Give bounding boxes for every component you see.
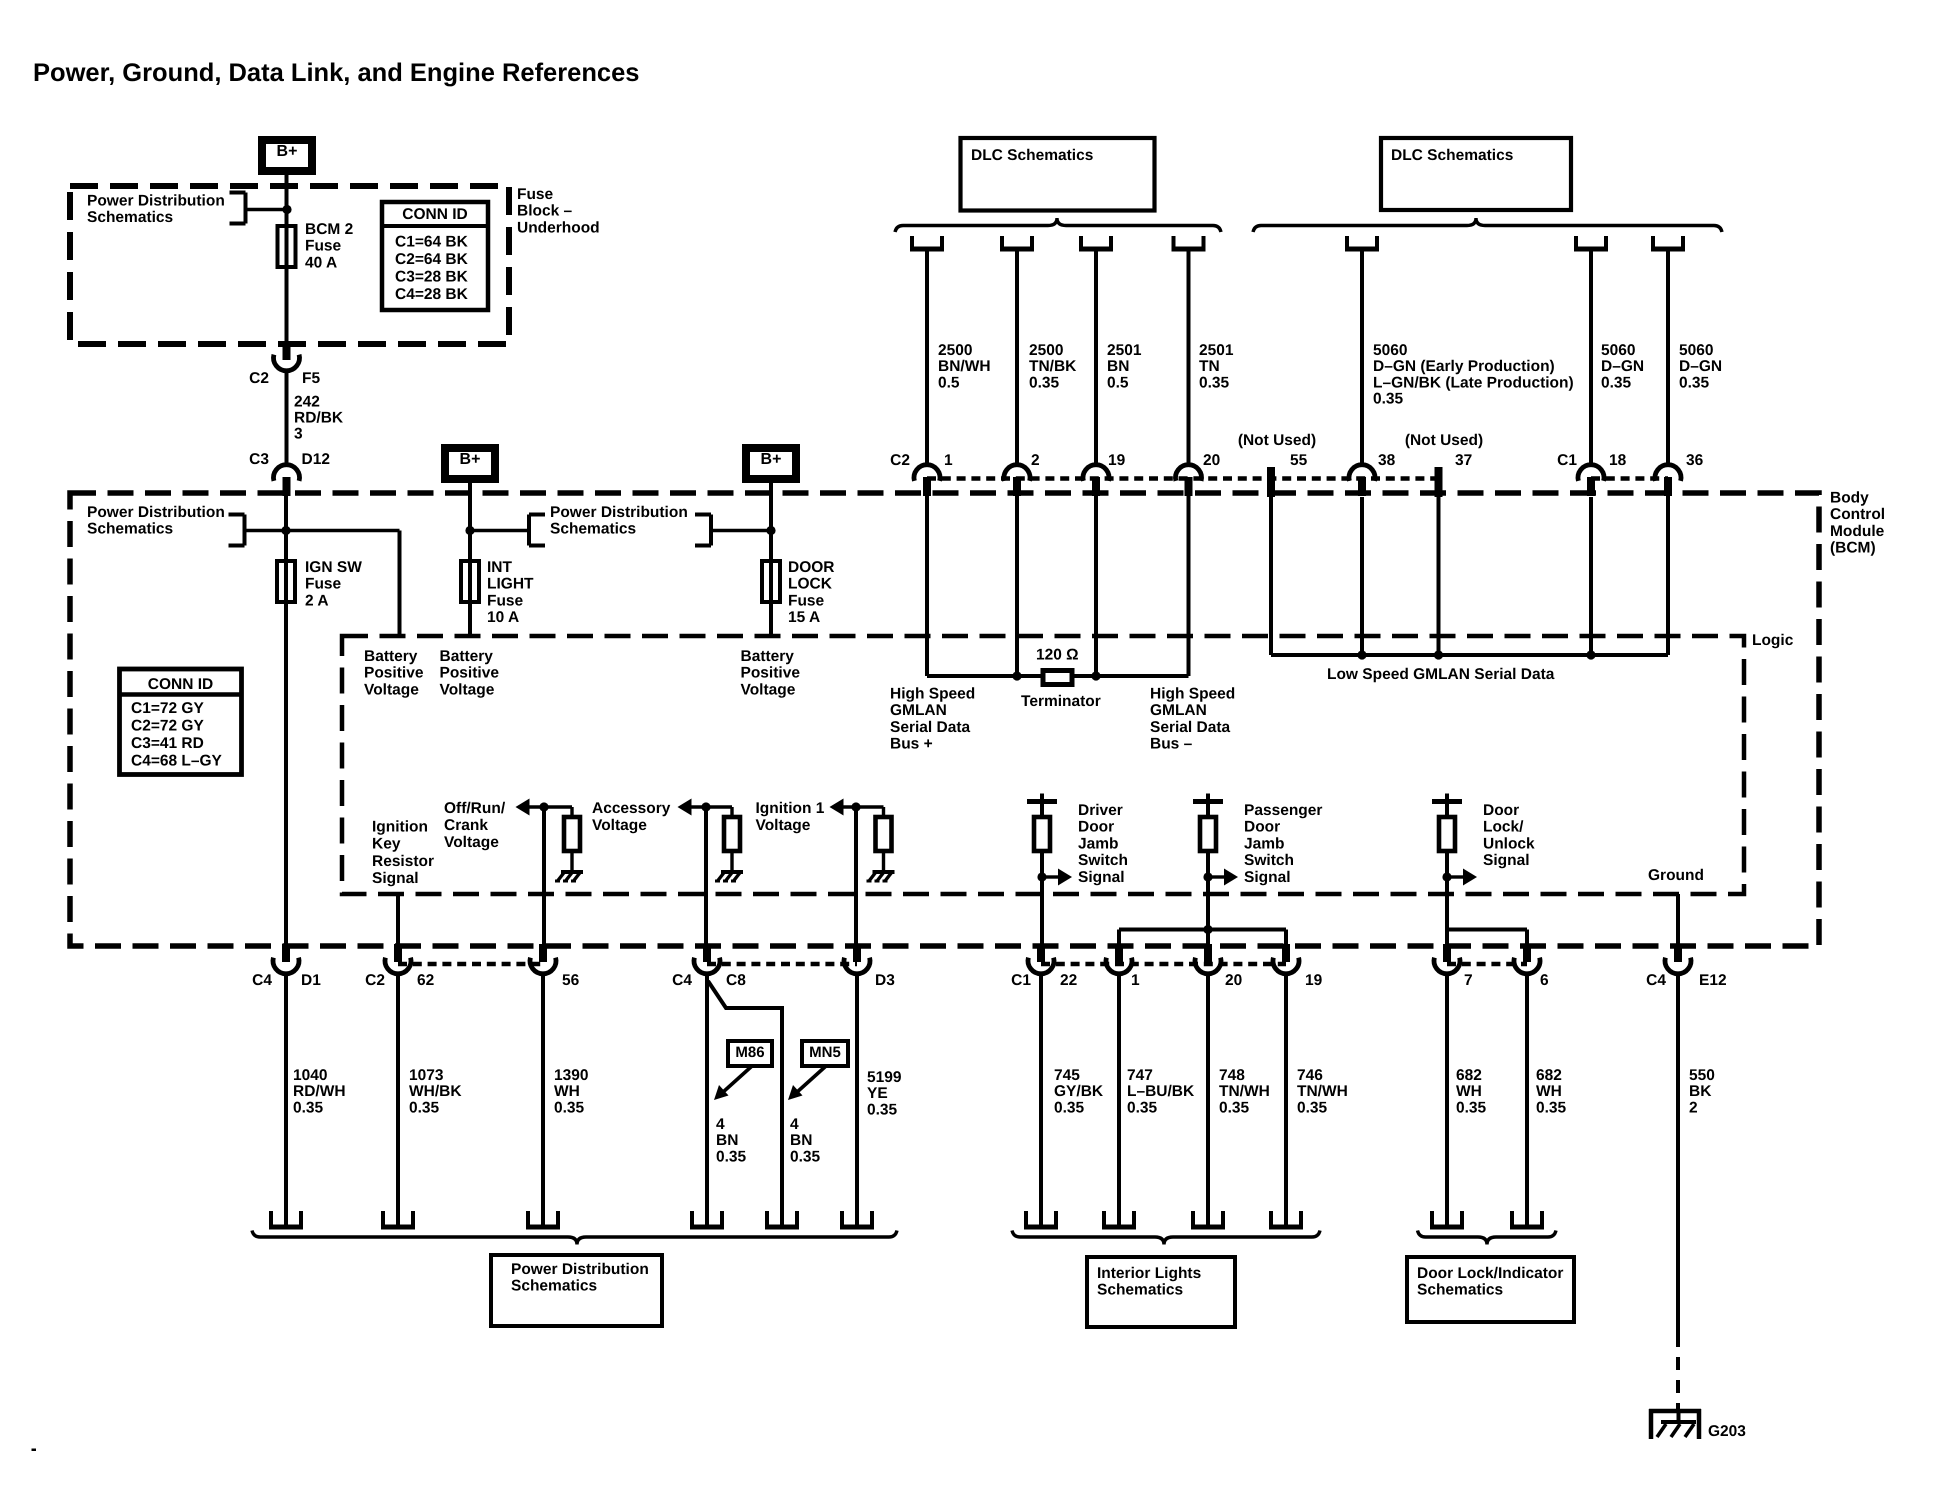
svg-text:Fuse: Fuse [788, 592, 825, 609]
svg-text:Battery: Battery [364, 648, 418, 665]
svg-text:0.5: 0.5 [1107, 374, 1129, 391]
svg-text:Voltage: Voltage [756, 817, 811, 834]
svg-text:Positive: Positive [364, 665, 424, 682]
svg-text:748: 748 [1219, 1067, 1245, 1084]
svg-text:C2=72 GY: C2=72 GY [131, 717, 204, 734]
svg-text:Block –: Block – [517, 203, 573, 220]
svg-text:C1: C1 [1011, 972, 1031, 989]
svg-text:Signal: Signal [1078, 869, 1125, 886]
svg-text:Ignition 1: Ignition 1 [756, 800, 825, 817]
svg-text:BN: BN [790, 1132, 812, 1149]
svg-text:C4: C4 [672, 972, 692, 989]
svg-text:Schematics: Schematics [1097, 1282, 1183, 1299]
svg-text:High Speed: High Speed [1150, 685, 1235, 702]
svg-text:0.35: 0.35 [1199, 374, 1230, 391]
svg-text:Control: Control [1830, 506, 1885, 523]
svg-text:WH: WH [1456, 1083, 1482, 1100]
svg-text:GMLAN: GMLAN [1150, 702, 1207, 719]
svg-text:C1: C1 [1557, 452, 1577, 469]
svg-text:36: 36 [1686, 452, 1704, 469]
svg-text:RD/BK: RD/BK [294, 410, 344, 427]
svg-text:C3: C3 [249, 451, 269, 468]
svg-text:Door: Door [1483, 802, 1519, 819]
svg-text:2501: 2501 [1199, 342, 1234, 359]
svg-text:6: 6 [1540, 972, 1549, 989]
svg-text:2500: 2500 [938, 342, 972, 359]
svg-text:Schematics: Schematics [87, 521, 173, 538]
svg-text:0.35: 0.35 [1373, 391, 1404, 408]
svg-text:DLC Schematics: DLC Schematics [1391, 147, 1513, 164]
svg-text:Jamb: Jamb [1244, 835, 1285, 852]
svg-text:1390: 1390 [554, 1067, 588, 1084]
svg-text:TN/WH: TN/WH [1219, 1083, 1270, 1100]
svg-text:0.35: 0.35 [1297, 1099, 1328, 1116]
svg-text:B+: B+ [761, 451, 782, 468]
svg-text:GY/BK: GY/BK [1054, 1083, 1104, 1100]
svg-text:746: 746 [1297, 1067, 1323, 1084]
svg-text:Door: Door [1078, 819, 1114, 836]
svg-text:C1=72 GY: C1=72 GY [131, 700, 204, 717]
svg-text:B+: B+ [460, 451, 481, 468]
svg-text:C4: C4 [1646, 972, 1666, 989]
svg-text:2500: 2500 [1029, 342, 1063, 359]
svg-text:WH: WH [554, 1083, 580, 1100]
svg-text:BK: BK [1689, 1083, 1712, 1100]
svg-text:BCM 2: BCM 2 [305, 221, 353, 238]
svg-text:10 A: 10 A [487, 609, 519, 626]
svg-text:Signal: Signal [372, 870, 419, 887]
svg-text:E12: E12 [1699, 972, 1727, 989]
svg-text:High Speed: High Speed [890, 685, 975, 702]
svg-text:Power Distribution: Power Distribution [550, 504, 688, 521]
svg-text:LIGHT: LIGHT [487, 576, 534, 593]
svg-text:18: 18 [1609, 452, 1627, 469]
svg-text:Module: Module [1830, 523, 1885, 540]
svg-text:C4=28 BK: C4=28 BK [395, 286, 469, 303]
svg-text:0.35: 0.35 [1219, 1099, 1250, 1116]
svg-text:56: 56 [562, 972, 580, 989]
svg-text:Fuse: Fuse [305, 238, 342, 255]
svg-text:C2=64 BK: C2=64 BK [395, 251, 469, 268]
svg-text:0.35: 0.35 [554, 1099, 585, 1116]
svg-text:RD/WH: RD/WH [293, 1083, 346, 1100]
svg-text:5060: 5060 [1373, 342, 1407, 359]
svg-text:B+: B+ [277, 143, 298, 160]
svg-text:Signal: Signal [1244, 869, 1291, 886]
svg-text:22: 22 [1060, 972, 1077, 989]
svg-text:Schematics: Schematics [87, 209, 173, 226]
svg-text:Off/Run/: Off/Run/ [444, 800, 506, 817]
svg-text:(BCM): (BCM) [1830, 540, 1876, 557]
svg-text:Passenger: Passenger [1244, 802, 1322, 819]
svg-text:Body: Body [1830, 489, 1869, 506]
svg-text:40 A: 40 A [305, 254, 337, 271]
svg-text:120 Ω: 120 Ω [1036, 646, 1079, 663]
svg-text:0.35: 0.35 [867, 1101, 898, 1118]
svg-text:20: 20 [1203, 452, 1220, 469]
svg-text:F5: F5 [302, 370, 320, 387]
svg-text:Battery: Battery [741, 648, 795, 665]
svg-text:4: 4 [716, 1116, 725, 1133]
svg-text:0.5: 0.5 [938, 374, 960, 391]
svg-text:D–GN (Early Production): D–GN (Early Production) [1373, 358, 1555, 375]
svg-text:20: 20 [1225, 972, 1242, 989]
svg-text:Positive: Positive [741, 665, 801, 682]
svg-text:Driver: Driver [1078, 802, 1123, 819]
svg-text:Power Distribution: Power Distribution [87, 192, 225, 209]
svg-text:7: 7 [1464, 972, 1473, 989]
svg-text:TN/WH: TN/WH [1297, 1083, 1348, 1100]
svg-text:5060: 5060 [1601, 342, 1635, 359]
svg-text:M86: M86 [735, 1044, 764, 1061]
svg-text:C8: C8 [726, 972, 746, 989]
svg-text:Voltage: Voltage [364, 681, 419, 698]
svg-text:D1: D1 [301, 972, 321, 989]
svg-text:C2: C2 [890, 452, 910, 469]
svg-text:Schematics: Schematics [511, 1278, 597, 1295]
svg-text:L–BU/BK: L–BU/BK [1127, 1083, 1195, 1100]
svg-text:Lock/: Lock/ [1483, 819, 1524, 836]
svg-text:242: 242 [294, 393, 320, 410]
svg-text:GMLAN: GMLAN [890, 702, 947, 719]
svg-text:2501: 2501 [1107, 342, 1142, 359]
svg-text:1: 1 [1131, 972, 1140, 989]
svg-text:Accessory: Accessory [592, 800, 671, 817]
svg-text:15 A: 15 A [788, 609, 820, 626]
svg-text:682: 682 [1456, 1067, 1482, 1084]
svg-text:YE: YE [867, 1085, 888, 1102]
svg-text:Terminator: Terminator [1021, 693, 1101, 710]
svg-text:0.35: 0.35 [1054, 1099, 1085, 1116]
svg-text:Fuse: Fuse [517, 186, 554, 203]
svg-text:Voltage: Voltage [444, 834, 499, 851]
svg-text:G203: G203 [1708, 1423, 1746, 1440]
svg-text:Door: Door [1244, 819, 1280, 836]
svg-text:Voltage: Voltage [741, 681, 796, 698]
svg-text:550: 550 [1689, 1067, 1715, 1084]
svg-text:1040: 1040 [293, 1067, 327, 1084]
svg-text:19: 19 [1108, 452, 1126, 469]
svg-text:Bus +: Bus + [890, 736, 933, 753]
svg-text:5060: 5060 [1679, 342, 1713, 359]
svg-text:0.35: 0.35 [293, 1099, 324, 1116]
svg-text:D12: D12 [302, 451, 330, 468]
svg-text:Fuse: Fuse [305, 576, 342, 593]
svg-text:CONN ID: CONN ID [148, 676, 213, 693]
svg-text:Schematics: Schematics [550, 521, 636, 538]
svg-text:Voltage: Voltage [592, 817, 647, 834]
svg-text:Door Lock/Indicator: Door Lock/Indicator [1417, 1265, 1563, 1282]
svg-text:C2: C2 [249, 370, 269, 387]
svg-text:C3=28 BK: C3=28 BK [395, 268, 469, 285]
svg-text:Switch: Switch [1078, 852, 1128, 869]
svg-text:CONN ID: CONN ID [402, 206, 467, 223]
svg-text:BN: BN [1107, 358, 1129, 375]
svg-text:L–GN/BK (Late Production): L–GN/BK (Late Production) [1373, 374, 1574, 391]
svg-text:0.35: 0.35 [1127, 1099, 1158, 1116]
svg-text:Power, Ground, Data Link, and: Power, Ground, Data Link, and Engine Ref… [33, 59, 639, 87]
svg-text:38: 38 [1378, 452, 1396, 469]
svg-text:2 A: 2 A [305, 592, 329, 609]
svg-text:TN: TN [1199, 358, 1220, 375]
svg-text:Positive: Positive [440, 665, 500, 682]
svg-text:3: 3 [294, 426, 303, 443]
svg-text:Bus –: Bus – [1150, 736, 1193, 753]
svg-text:37: 37 [1455, 452, 1472, 469]
svg-text:Signal: Signal [1483, 852, 1530, 869]
svg-text:Switch: Switch [1244, 852, 1294, 869]
svg-text:0.35: 0.35 [1679, 374, 1710, 391]
svg-text:Low Speed GMLAN Serial Data: Low Speed GMLAN Serial Data [1327, 666, 1555, 683]
svg-text:D–GN: D–GN [1601, 358, 1644, 375]
svg-text:Power Distribution: Power Distribution [87, 504, 225, 521]
svg-text:Crank: Crank [444, 817, 488, 834]
svg-text:MN5: MN5 [809, 1044, 841, 1061]
svg-text:0.35: 0.35 [1536, 1099, 1567, 1116]
svg-text:Key: Key [372, 836, 401, 853]
svg-text:BN/WH: BN/WH [938, 358, 991, 375]
svg-text:BN: BN [716, 1132, 738, 1149]
svg-text:Ignition: Ignition [372, 818, 428, 835]
svg-text:C1=64 BK: C1=64 BK [395, 233, 469, 250]
svg-text:WH: WH [1536, 1083, 1562, 1100]
svg-text:0.35: 0.35 [409, 1099, 440, 1116]
svg-text:Voltage: Voltage [440, 681, 495, 698]
svg-text:Jamb: Jamb [1078, 835, 1119, 852]
svg-text:Interior Lights: Interior Lights [1097, 1265, 1201, 1282]
svg-text:5199: 5199 [867, 1069, 902, 1086]
svg-text:Ground: Ground [1648, 867, 1704, 884]
svg-text:Serial Data: Serial Data [1150, 719, 1231, 736]
svg-text:C4: C4 [252, 972, 272, 989]
svg-text:682: 682 [1536, 1067, 1562, 1084]
svg-text:0.35: 0.35 [1601, 374, 1632, 391]
svg-text:Underhood: Underhood [517, 219, 600, 236]
svg-text:DLC Schematics: DLC Schematics [971, 147, 1093, 164]
svg-text:LOCK: LOCK [788, 576, 833, 593]
svg-text:2: 2 [1689, 1099, 1698, 1116]
svg-text:C4=68 L–GY: C4=68 L–GY [131, 752, 223, 769]
svg-text:Logic: Logic [1752, 632, 1794, 649]
svg-text:INT: INT [487, 559, 513, 576]
svg-text:Battery: Battery [440, 648, 494, 665]
svg-text:1: 1 [944, 452, 953, 469]
svg-text:0.35: 0.35 [790, 1148, 821, 1165]
svg-text:IGN SW: IGN SW [305, 559, 362, 576]
svg-text:(Not Used): (Not Used) [1238, 432, 1316, 449]
svg-text:D–GN: D–GN [1679, 358, 1722, 375]
svg-text:WH/BK: WH/BK [409, 1083, 462, 1100]
svg-text:747: 747 [1127, 1067, 1153, 1084]
svg-text:0.35: 0.35 [1456, 1099, 1487, 1116]
svg-text:Schematics: Schematics [1417, 1282, 1503, 1299]
svg-text:4: 4 [790, 1116, 799, 1133]
svg-text:Unlock: Unlock [1483, 835, 1535, 852]
svg-text:DOOR: DOOR [788, 559, 835, 576]
svg-text:0.35: 0.35 [1029, 374, 1060, 391]
svg-text:0.35: 0.35 [716, 1148, 747, 1165]
svg-text:(Not Used): (Not Used) [1405, 432, 1483, 449]
svg-text:Serial Data: Serial Data [890, 719, 971, 736]
svg-text:Resistor: Resistor [372, 853, 434, 870]
svg-text:D3: D3 [875, 972, 895, 989]
svg-text:2: 2 [1031, 452, 1040, 469]
svg-text:C2: C2 [365, 972, 385, 989]
svg-text:19: 19 [1305, 972, 1323, 989]
svg-text:745: 745 [1054, 1067, 1080, 1084]
svg-text:55: 55 [1290, 452, 1308, 469]
svg-text:C3=41 RD: C3=41 RD [131, 735, 204, 752]
svg-text:62: 62 [417, 972, 434, 989]
svg-text:Fuse: Fuse [487, 592, 524, 609]
svg-text:Power Distribution: Power Distribution [511, 1261, 649, 1278]
svg-text:1073: 1073 [409, 1067, 444, 1084]
svg-text:TN/BK: TN/BK [1029, 358, 1077, 375]
